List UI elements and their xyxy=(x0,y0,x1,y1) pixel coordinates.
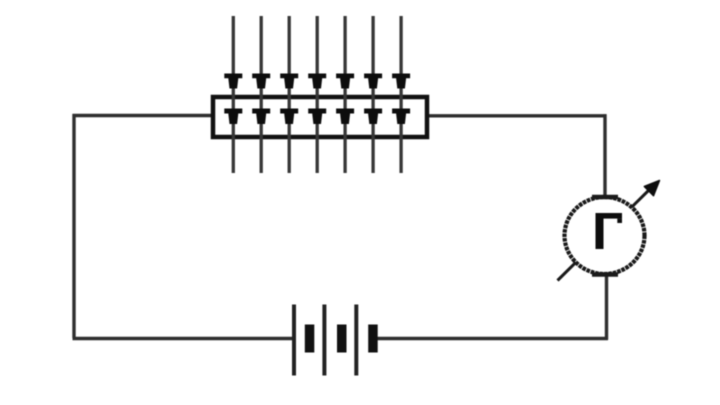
galvanometer G1 circle xyxy=(565,197,645,274)
galvanometer bottom terminal cap xyxy=(592,272,618,277)
arrowhead of variable-symbol arrow xyxy=(644,181,659,196)
battery B1 xyxy=(292,305,378,376)
light ray 1 xyxy=(224,16,242,173)
wire top right segment xyxy=(427,114,607,117)
wire left vertical xyxy=(72,114,75,338)
light ray 6 xyxy=(364,16,382,173)
wire bottom left segment xyxy=(73,337,296,340)
galvanometer top terminal cap xyxy=(592,195,618,200)
wire right vertical lower xyxy=(605,274,608,340)
light rays with arrows xyxy=(224,16,410,173)
wire right vertical upper xyxy=(603,114,606,197)
battery short plate 2 xyxy=(337,325,347,353)
wire top left segment xyxy=(73,114,214,117)
light ray 2 xyxy=(252,16,270,173)
battery long plate 3 xyxy=(354,305,358,376)
wire bottom right segment xyxy=(375,337,608,340)
light ray 7 xyxy=(392,16,410,173)
galvanometer arrow shaft (variable symbol) xyxy=(558,189,651,281)
galvanometer label letter Г xyxy=(596,213,623,249)
battery short plate 3 xyxy=(368,325,378,353)
light ray 5 xyxy=(336,16,354,173)
battery short plate 1 xyxy=(305,325,315,353)
light ray 3 xyxy=(280,16,298,173)
photoresistor R1 body xyxy=(213,97,427,137)
battery long plate 1 xyxy=(292,305,296,376)
battery long plate 2 xyxy=(322,305,326,376)
light ray 4 xyxy=(308,16,326,173)
